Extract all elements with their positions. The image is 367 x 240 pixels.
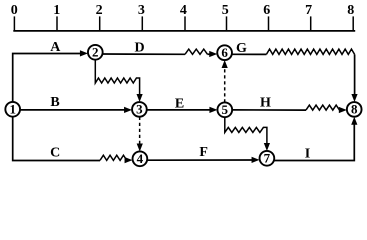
- svg-text:3: 3: [136, 102, 143, 117]
- svg-text:7: 7: [305, 3, 312, 18]
- svg-text:G: G: [236, 41, 247, 56]
- svg-text:2: 2: [92, 45, 99, 60]
- float path: node2 down, zigzag right, arrow down into node3 top: [95, 59, 139, 96]
- timescale numbers 0-8: [11, 3, 354, 18]
- node 7 circle: [260, 151, 275, 166]
- svg-text:1: 1: [53, 3, 60, 18]
- activity A arrow: node1 up, right into node2: [13, 54, 81, 102]
- dashed dummy arrow: node3 bottom down into node4 top: [139, 117, 141, 146]
- timescale baseline: [13, 30, 355, 32]
- svg-text:2: 2: [96, 3, 103, 18]
- activity B arrow: node1 to node3: [20, 109, 126, 111]
- activity E arrow: node3 to node5: [147, 109, 211, 111]
- node 1 circle: [5, 102, 20, 117]
- svg-text:5: 5: [222, 3, 229, 18]
- svg-text:6: 6: [221, 45, 228, 60]
- svg-text:F: F: [199, 145, 208, 160]
- activity I arrow: node7 right, up into node8 bottom: [274, 124, 354, 161]
- node 8 circle: [347, 102, 362, 117]
- svg-text:B: B: [50, 95, 59, 110]
- svg-text:0: 0: [11, 3, 18, 18]
- svg-text:A: A: [50, 40, 61, 55]
- node 5 circle: [217, 102, 232, 117]
- svg-text:1: 1: [9, 102, 16, 117]
- svg-text:8: 8: [351, 102, 358, 117]
- svg-text:C: C: [50, 145, 60, 160]
- svg-text:I: I: [305, 146, 310, 161]
- node 4 circle: [133, 151, 148, 166]
- svg-text:E: E: [175, 97, 184, 112]
- svg-text:4: 4: [137, 151, 144, 166]
- node 6 circle: [217, 45, 232, 60]
- float path: node5 down, zigzag right, arrow down into node7 top: [225, 117, 267, 145]
- node 2 circle: [88, 45, 103, 60]
- svg-text:6: 6: [263, 3, 270, 18]
- svg-text:7: 7: [264, 151, 271, 166]
- activity D arrow: node2 to node6 with float zigzag: [103, 53, 185, 55]
- svg-text:4: 4: [180, 3, 187, 18]
- timescale tick marks: [14, 16, 353, 31]
- svg-text:H: H: [260, 96, 271, 111]
- svg-text:8: 8: [347, 3, 354, 18]
- activity G arrow: node6 right, float zigzag, down into node8 top: [232, 53, 266, 55]
- activity H arrow: node5 to node8 with float zigzag: [232, 109, 306, 111]
- svg-text:3: 3: [138, 3, 145, 18]
- node 3 circle: [132, 102, 147, 117]
- activity F arrow: node4 to node7: [147, 159, 253, 161]
- activity C arrow: node1 down, right, zigzag into node4: [13, 116, 100, 160]
- svg-text:D: D: [134, 41, 144, 56]
- dashed dummy arrow: node5 top up into node6 bottom: [224, 67, 226, 103]
- svg-text:5: 5: [222, 102, 229, 117]
